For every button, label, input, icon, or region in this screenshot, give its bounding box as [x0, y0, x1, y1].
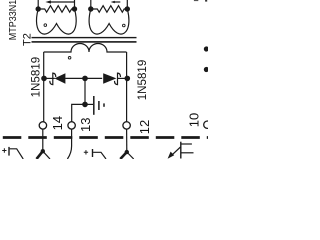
node diode row center junction [82, 76, 88, 82]
resistor R snubber 2 (zigzag) [91, 6, 128, 13]
node right edge junction upper (half cut) [204, 46, 209, 51]
node right edge junction lower (half cut) [204, 67, 209, 72]
wire diode row left segment [44, 77, 55, 79]
svg-text:12: 12 [137, 120, 152, 134]
transistor collector stroke below pin 12 [127, 152, 134, 159]
wire pin 13 into IC (curved) [67, 129, 71, 159]
transistor emitter arrow right [173, 147, 181, 154]
wire primary2 right top stub [126, 0, 128, 9]
node diode row left junction [41, 76, 47, 82]
winding T2 primary 2 (two loops) [89, 9, 129, 34]
node center ground junction [82, 102, 88, 108]
transistor node below pin 12 [125, 150, 129, 154]
wire primary2 left top stub [90, 0, 92, 9]
winding T2 secondary (two bumps) [44, 44, 127, 53]
cut-off artifact top right [194, 0, 198, 1]
wire secondary left leg down to pin 14 [43, 52, 45, 122]
wire secondary right leg down to pin 12 [126, 52, 128, 122]
pin 13 circle [68, 122, 75, 129]
node diode row right junction [125, 76, 131, 82]
phase dot primary 2 [123, 24, 126, 27]
transistor collector stroke below pin 14 [43, 151, 50, 159]
svg-text:10: 10 [186, 113, 201, 127]
transistor symbol right (base bar and leads) [180, 142, 182, 159]
resistor R snubber 1 (zigzag) [38, 6, 74, 13]
diode D2 1N5819 (schottky, pointing right) [103, 73, 116, 84]
capacitor plate / base bar far left [8, 147, 10, 156]
transistor emitter stroke (thick) below pin 14 [37, 151, 43, 159]
pin 12 circle [123, 122, 130, 129]
schottky bar D2 [115, 73, 121, 85]
svg-text:13: 13 [78, 118, 93, 132]
lead center [93, 152, 106, 159]
wire pin 14 into IC [42, 129, 44, 151]
wire jog to pin 13 [72, 104, 85, 121]
transistor node below pin 14 [41, 149, 45, 153]
node primary1 right junction [72, 6, 77, 11]
wire D1 anode to center [65, 77, 85, 79]
IC boundary dashed line [3, 136, 208, 139]
wire junction to ground [85, 103, 93, 105]
current arrow over resistor 1 [50, 1, 75, 3]
wire pin 12 into IC [126, 129, 128, 152]
wire primary1 left top stub [37, 0, 39, 9]
transistor emitter stroke (thick) below pin 12 [120, 152, 127, 159]
pin 10 circle (cut at right edge) [204, 121, 211, 128]
wire center to D2 anode [85, 77, 102, 79]
transformer T2 core (double line) [32, 37, 137, 38]
svg-text:MTP33N10: MTP33N10 [8, 0, 19, 40]
capacitor plate / base bar center [92, 149, 94, 157]
wire center tap down [84, 78, 86, 104]
schottky bar D1 [50, 73, 56, 85]
lead far left [10, 149, 24, 159]
capacitor plus sign center [84, 150, 88, 154]
winding T2 primary 1 (two loops) [36, 9, 76, 34]
svg-text:1N5819: 1N5819 [136, 60, 149, 101]
node primary1 left junction [36, 6, 41, 11]
svg-text:1N5819: 1N5819 [29, 57, 42, 98]
ground symbol (rotated, opens right) [93, 96, 95, 115]
svg-text:14: 14 [50, 116, 65, 130]
svg-text:T2: T2 [22, 33, 34, 46]
node primary2 left junction [88, 6, 93, 11]
diode D1 1N5819 (schottky, pointing left) [54, 73, 65, 84]
wire primary1 right top stub [74, 0, 76, 9]
node primary2 right junction [125, 6, 130, 11]
current arrow over resistor 2 [114, 1, 120, 3]
pin 14 circle [39, 122, 46, 129]
phase dot secondary [68, 57, 71, 60]
phase dot primary 1 [44, 24, 47, 27]
wire D2 cathode to right node [118, 77, 128, 79]
capacitor plus sign far left [2, 148, 6, 152]
